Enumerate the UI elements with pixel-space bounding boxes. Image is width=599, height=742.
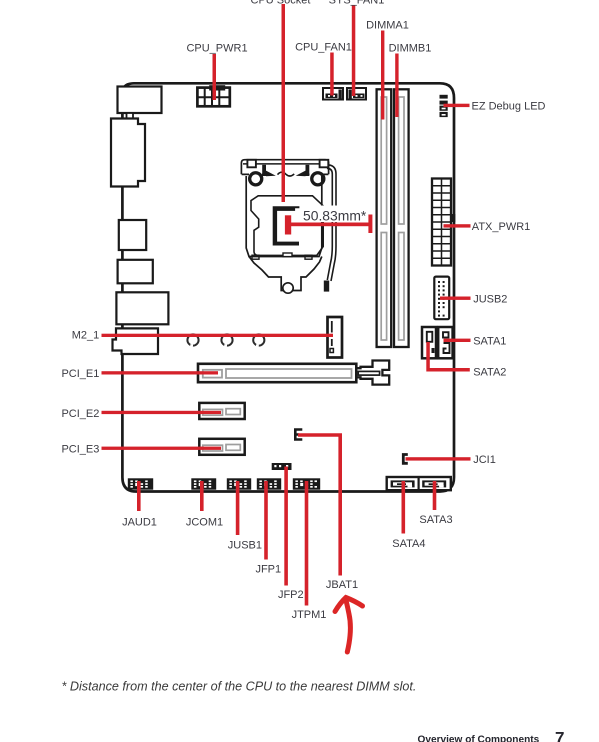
- svg-text:JUSB1: JUSB1: [228, 539, 262, 551]
- svg-text:SATA3: SATA3: [419, 514, 452, 526]
- svg-text:CPU_PWR1: CPU_PWR1: [186, 43, 247, 55]
- JFP1 connector: [257, 478, 281, 489]
- leader JFP2: [284, 467, 288, 586]
- PCI_E1 latch: [356, 361, 389, 385]
- leader ATX_PWR1: [444, 224, 471, 227]
- leader CPU_FAN1: [330, 53, 334, 96]
- io port block B5: [116, 292, 168, 324]
- svg-text:SATA2: SATA2: [473, 366, 506, 378]
- PCI_E2 slot: [199, 403, 244, 419]
- leader JBAT1: [298, 433, 342, 575]
- M.2 standoff circle 2: [221, 334, 232, 345]
- red leader lines: [102, 4, 471, 606]
- leader JCOM1: [200, 481, 204, 511]
- leader JUSB2: [440, 297, 471, 300]
- svg-text:DIMMB1: DIMMB1: [389, 43, 432, 55]
- fan header SYS_FAN1: [347, 88, 366, 100]
- JAUD1 connector: [128, 478, 153, 489]
- SATA2 connector: [422, 327, 436, 358]
- leader SATA2: [426, 342, 470, 372]
- leader DIMMB1: [395, 54, 398, 118]
- svg-text:JCOM1: JCOM1: [186, 517, 223, 529]
- JBAT1 connector: [295, 430, 302, 440]
- io port block B4: [118, 260, 153, 284]
- M.2 standoff circle 1: [187, 334, 198, 345]
- io port block B1: [118, 87, 162, 114]
- CPU socket inner octagon: [251, 196, 323, 259]
- CPU center mark black bracket: [273, 206, 300, 245]
- JUSB2 header: [434, 277, 449, 320]
- svg-text:SYS_FAN1: SYS_FAN1: [329, 0, 385, 7]
- JFP2 connector: [272, 463, 292, 470]
- dimension line 50.83mm: [291, 223, 369, 227]
- leader M2_1: [102, 334, 334, 337]
- io port block B6: [113, 328, 159, 354]
- leader JFP1: [264, 481, 268, 560]
- white underlay for dimension text: [301, 206, 368, 223]
- leader CPU_PWR1: [213, 54, 217, 100]
- leader PCI_E1: [102, 371, 219, 374]
- PCI_E3 slot: [199, 439, 244, 455]
- CPU socket bracket tabs: [247, 160, 256, 168]
- hand-drawn arrow: [335, 598, 363, 653]
- leader SATA4: [402, 481, 406, 534]
- CPU socket body frame: [246, 176, 322, 291]
- svg-text:* Distance from the center of: * Distance from the center of the CPU to…: [62, 680, 417, 694]
- svg-text:JBAT1: JBAT1: [326, 579, 358, 591]
- io port block B2: [111, 119, 145, 187]
- leader CPU Socket: [282, 4, 286, 202]
- JCI1 connector: [403, 455, 408, 464]
- leader PCI_E3: [102, 447, 222, 450]
- svg-text:JFP1: JFP1: [255, 563, 281, 575]
- svg-text:Overview of Components: Overview of Components: [418, 735, 540, 742]
- svg-text:DIMMA1: DIMMA1: [366, 19, 409, 31]
- svg-text:SATA1: SATA1: [473, 336, 506, 348]
- leader PCI_E2: [102, 411, 222, 414]
- dimension end cap: [368, 215, 372, 234]
- CPU socket bottom circle: [283, 283, 293, 293]
- JCOM1 connector: [191, 478, 216, 489]
- svg-text:M2_1: M2_1: [72, 329, 100, 341]
- leader JUSB1: [236, 481, 240, 535]
- svg-text:EZ Debug LED: EZ Debug LED: [472, 101, 546, 113]
- svg-text:JUSB2: JUSB2: [473, 293, 507, 305]
- svg-text:JCI1: JCI1: [473, 454, 496, 466]
- svg-text:50.83mm*: 50.83mm*: [303, 208, 367, 224]
- DIMM slot DIMMB1: [394, 89, 409, 347]
- svg-text:JFP2: JFP2: [278, 589, 304, 601]
- DIMM slot DIMMA1: [377, 89, 392, 347]
- PCI_E1 slot: [198, 364, 356, 382]
- CPU center red bar: [285, 215, 291, 234]
- CPU socket latch flags: [262, 165, 266, 176]
- board outline: [122, 83, 454, 491]
- SATA3 SATA4 combo connector: [387, 477, 451, 490]
- io port block B3: [119, 220, 146, 250]
- leader JAUD1: [137, 481, 141, 511]
- svg-text:JAUD1: JAUD1: [122, 517, 157, 529]
- JTPM1 connector: [293, 478, 320, 489]
- ATX_PWR1 connector: [432, 179, 455, 266]
- leader DIMMA1: [381, 31, 384, 120]
- SATA1 connector: [438, 327, 452, 358]
- EZ Debug LED block: [440, 95, 448, 117]
- svg-text:PCI_E2: PCI_E2: [61, 408, 99, 420]
- M.2 slot connector M2_1: [328, 317, 343, 358]
- svg-text:PCI_E1: PCI_E1: [61, 368, 99, 380]
- connector CPU_PWR1: [197, 85, 229, 106]
- io stub between B1 and B2: [127, 113, 134, 119]
- leader SYS_FAN1: [352, 5, 356, 96]
- fan header CPU_FAN1: [323, 88, 343, 100]
- leader JTPM1: [305, 481, 309, 606]
- CPU socket lever: [324, 165, 336, 292]
- JUSB1 connector: [227, 478, 251, 489]
- leader JCI1: [406, 457, 471, 460]
- CPU socket screw circles: [248, 171, 263, 186]
- svg-text:CPU_FAN1: CPU_FAN1: [295, 42, 352, 54]
- leader EZ Debug LED: [444, 104, 470, 107]
- leader SATA3: [433, 481, 437, 510]
- svg-text:SATA4: SATA4: [392, 538, 425, 550]
- svg-text:JTPM1: JTPM1: [292, 609, 327, 621]
- svg-text:CPU Socket: CPU Socket: [251, 0, 311, 7]
- svg-text:ATX_PWR1: ATX_PWR1: [472, 221, 530, 233]
- svg-text:7: 7: [555, 729, 564, 742]
- leader SATA1: [444, 339, 471, 342]
- CPU socket top bracket: [241, 160, 328, 176]
- svg-text:PCI_E3: PCI_E3: [61, 443, 99, 455]
- M.2 standoff circle 3: [253, 334, 264, 345]
